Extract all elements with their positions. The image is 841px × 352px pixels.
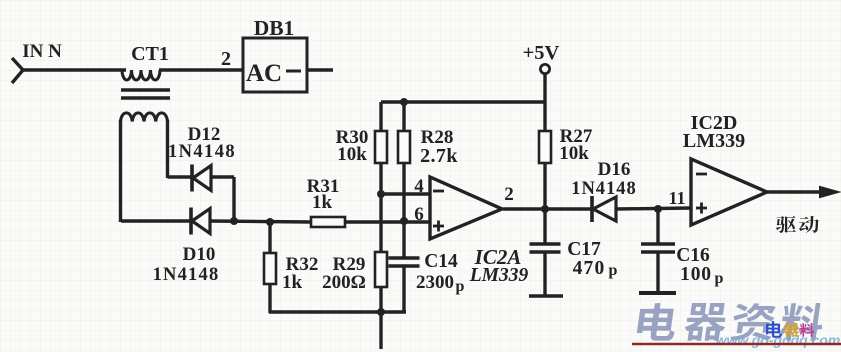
svg-text:LM339: LM339 (683, 130, 745, 152)
svg-text:470: 470 (573, 258, 606, 279)
svg-text:1N4148: 1N4148 (153, 265, 220, 285)
svg-text:C14: C14 (424, 251, 458, 272)
svg-text:2.7k: 2.7k (420, 145, 458, 167)
svg-text:4: 4 (414, 176, 424, 197)
svg-text:10k: 10k (559, 143, 589, 164)
svg-text:2300: 2300 (416, 272, 454, 293)
svg-text:p: p (715, 270, 724, 287)
svg-text:C17: C17 (567, 239, 601, 260)
svg-text:11: 11 (668, 188, 685, 208)
svg-text:1N4148: 1N4148 (168, 142, 236, 162)
svg-text:C16: C16 (676, 245, 710, 266)
svg-text:1k: 1k (312, 192, 333, 213)
svg-text:6: 6 (414, 204, 424, 225)
svg-text:1N4148: 1N4148 (571, 179, 637, 199)
svg-text:D16: D16 (598, 159, 631, 180)
svg-text:D10: D10 (183, 244, 216, 265)
svg-text:p: p (609, 262, 618, 279)
svg-text:CT1: CT1 (131, 43, 169, 65)
svg-text:1k: 1k (282, 272, 303, 293)
svg-text:www.go-gddq.com: www.go-gddq.com (716, 332, 841, 348)
svg-text:IN N: IN N (22, 41, 62, 62)
svg-text:100: 100 (680, 264, 712, 285)
svg-text:10k: 10k (337, 144, 367, 165)
svg-text:AC: AC (246, 60, 282, 87)
svg-text:DB1: DB1 (254, 16, 295, 40)
svg-text:2: 2 (504, 184, 514, 205)
svg-text:+5V: +5V (523, 42, 560, 64)
svg-text:p: p (456, 278, 465, 295)
svg-text:LM339: LM339 (469, 265, 529, 286)
svg-text:2: 2 (221, 48, 231, 70)
svg-text:200Ω: 200Ω (322, 272, 366, 293)
